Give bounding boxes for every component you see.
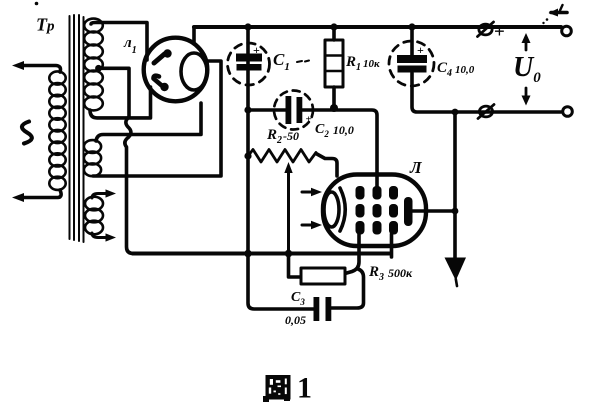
- node HV tap junction: [95, 65, 102, 72]
- dotted trail to terminal: [546, 18, 549, 21]
- output jack top: [479, 24, 492, 35]
- output terminal bottom: [563, 107, 573, 117]
- U0 arrow up: [525, 40, 528, 50]
- resistor R3 body: [301, 268, 345, 284]
- svg-text:+: +: [253, 43, 260, 57]
- transformer filament winding for tube: [85, 197, 103, 235]
- node anode junction: [452, 208, 459, 215]
- ground arrow: [445, 258, 467, 281]
- stray scan speck: [35, 2, 39, 6]
- wire rectifier cathode to top bus: [192, 27, 196, 44]
- tube anode bar: [404, 197, 413, 226]
- svg-text:0,05: 0,05: [285, 313, 306, 327]
- wire grid net right segment: [302, 110, 377, 190]
- wire HV top to rectifier anode: [91, 23, 147, 61]
- tube heater arrow 1: [302, 191, 315, 194]
- node bus left vertical junction: [244, 250, 252, 258]
- rectifier anode hook 2: [154, 76, 165, 88]
- capacitor C3 plates: [314, 297, 320, 321]
- rectifier cathode: [181, 53, 207, 90]
- wire rectifier filament top lead: [96, 103, 201, 141]
- primary bottom lead arrowhead: [12, 193, 24, 202]
- transformer filament winding for rectifier: [84, 140, 101, 176]
- filament lead arrow bottom: [92, 233, 108, 238]
- svg-text:U0: U0: [513, 52, 541, 86]
- svg-text:C1: C1: [273, 50, 290, 73]
- node R1 bottom junction: [330, 104, 338, 112]
- capacitor C1 dashed circle: [228, 43, 270, 85]
- capacitor C1 plates: [236, 54, 262, 62]
- svg-text:+: +: [417, 43, 424, 57]
- wire R3 left lead: [289, 254, 302, 278]
- primary top lead arrowhead: [12, 61, 24, 70]
- svg-text:+: +: [306, 114, 312, 126]
- capacitor C2 plates: [286, 96, 292, 124]
- primary top lead wire: [18, 66, 61, 73]
- wire HV tap to center-tap drop: [99, 68, 130, 117]
- potentiometer R2 zigzag: [248, 150, 316, 163]
- figure caption square: [263, 375, 291, 402]
- top-right mark: [551, 11, 567, 15]
- wire tube grid3 lead down to bus: [390, 234, 394, 257]
- wire grid net left segment: [248, 108, 286, 112]
- wire anode to right vertical: [412, 209, 455, 213]
- wire C4 bottom to output bus: [412, 73, 561, 112]
- bottom bus wire: [133, 251, 391, 255]
- capacitor C2 dashed circle: [274, 91, 313, 130]
- top bus wire: [194, 25, 561, 29]
- filament lead arrow top: [92, 194, 108, 199]
- svg-text:л1: л1: [123, 35, 137, 56]
- wire right vertical: [453, 112, 457, 271]
- wire C1 vertical: [246, 27, 250, 110]
- AC mains tilde symbol: [22, 122, 32, 144]
- resistor R1 leads: [332, 27, 336, 108]
- capacitor C4 dashed circle: [389, 41, 434, 86]
- svg-text:R3500к: R3500к: [368, 264, 413, 283]
- transformer HV secondary winding: [84, 19, 103, 111]
- svg-text:1: 1: [297, 372, 312, 405]
- tube grid dashes column 1: [356, 186, 365, 235]
- rectifier tube L1 envelope: [144, 38, 208, 102]
- tube grid dashes column 2: [373, 186, 382, 235]
- resistor R1 body: [325, 40, 343, 87]
- output jack bottom: [479, 106, 492, 117]
- node bus wiper junction: [285, 250, 293, 258]
- wire C4 vertical top: [410, 27, 414, 55]
- node top bus R1: [330, 23, 337, 30]
- transformer primary winding: [49, 71, 65, 189]
- label C1 faint value: [297, 61, 309, 63]
- tube cathode ellipse: [324, 192, 339, 227]
- node R2 left junction: [244, 152, 251, 159]
- wire R2 right end to tube: [316, 154, 337, 177]
- tube grid dashes column 3: [389, 186, 398, 235]
- node C1 bottom junction: [244, 106, 251, 113]
- output terminal top: [562, 26, 572, 36]
- svg-text:C210,0: C210,0: [315, 122, 354, 139]
- wire left vertical C1-bottom to bus to C3: [248, 110, 314, 309]
- tube heater arrow 2: [302, 224, 315, 227]
- node top bus C1: [244, 23, 251, 30]
- svg-text:R110к: R110к: [345, 54, 380, 73]
- wire center-tap squiggle down to bottom bus: [125, 117, 134, 254]
- svg-text:R2-50: R2-50: [266, 127, 299, 146]
- main tube L envelope: [323, 175, 426, 247]
- primary bottom lead wire: [18, 190, 61, 198]
- tube cathode arc: [340, 188, 345, 231]
- potentiometer R2 wiper arrow: [287, 171, 290, 254]
- wire tube grid1 lead down to cathode resistor: [345, 234, 359, 274]
- svg-text:+: +: [494, 22, 505, 43]
- svg-text:C410,0: C410,0: [437, 60, 475, 79]
- rectifier anode hook 1: [154, 54, 165, 63]
- wire C3 right lead up to cathode: [331, 269, 364, 308]
- node output bus right junction: [452, 109, 459, 116]
- wire HV bottom to rectifier anode 2: [90, 87, 151, 118]
- node top bus C4: [408, 23, 415, 30]
- capacitor C4 plates: [397, 55, 427, 63]
- transformer core: [70, 15, 84, 242]
- svg-text:Tp: Tp: [36, 15, 55, 35]
- U0 arrow down: [525, 88, 528, 98]
- svg-text:Л: Л: [409, 158, 423, 177]
- svg-text:C3: C3: [291, 290, 305, 307]
- wire rectifier filament bottom / cathode return: [93, 61, 221, 176]
